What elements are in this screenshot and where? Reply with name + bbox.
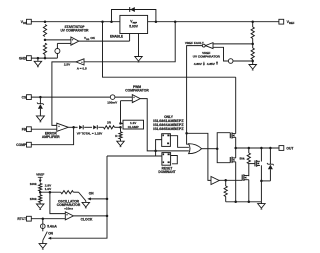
offset source 100mV	[110, 95, 115, 100]
label PWM COMPARATOR	[125, 85, 149, 93]
diode D1 bypass	[130, 7, 135, 12]
wire 2.5V to error amp	[52, 62, 76, 126]
svg-text:100k: 100k	[30, 182, 37, 186]
node chain bottom	[251, 60, 254, 63]
svg-text:COMP: COMP	[16, 143, 27, 147]
wire CS	[31, 96, 110, 98]
wire tap to comparator	[50, 192, 65, 213]
svg-text:UV COMPARATOR: UV COMPARATOR	[193, 55, 221, 59]
svg-text:A = 0.5: A = 0.5	[77, 67, 87, 71]
inverter fault	[211, 177, 219, 185]
wire VREF FAULT run	[187, 46, 203, 134]
node clamp junction	[119, 122, 122, 125]
ground 150k	[36, 202, 44, 209]
svg-text:DOMINANT: DOMINANT	[158, 170, 175, 174]
label ON discharge	[48, 232, 53, 236]
svg-text:DD: DD	[23, 21, 27, 25]
wire OR output	[202, 148, 218, 150]
wire circle to GND	[56, 54, 58, 59]
svg-text:CS: CS	[22, 95, 27, 99]
resistor chain upper	[251, 22, 254, 44]
label R	[115, 134, 118, 138]
latch upper (ISL6841/44/45)	[162, 134, 171, 147]
label ONLY ISL list	[153, 115, 184, 131]
wire branch to lower latch	[155, 151, 157, 156]
node R2-GND junction	[44, 57, 47, 60]
wire clamp stub	[121, 122, 124, 124]
node CLOCK out	[106, 215, 109, 218]
wire resistor to switch	[73, 191, 78, 193]
node clock threshold ctl	[106, 198, 109, 201]
svg-text:100mV: 100mV	[107, 100, 118, 104]
wire UV minus via switch	[213, 47, 228, 61]
wire lower latch Q hook	[171, 156, 178, 164]
ground CS zener	[36, 116, 44, 122]
node totem output	[234, 147, 237, 150]
wire inverter out	[219, 179, 243, 181]
wire to PWM plus	[115, 96, 132, 98]
wire error amp out	[68, 126, 77, 128]
resistor 2R	[104, 126, 115, 129]
svg-text:150k: 150k	[30, 197, 37, 201]
amplifier A=0.5	[76, 59, 84, 65]
node RTCT branch	[42, 217, 45, 220]
svg-text:DD: DD	[86, 39, 90, 41]
node COMP junction	[72, 126, 75, 129]
clamp box 1.1V	[123, 120, 144, 129]
wire VREF to divider amp	[84, 22, 175, 62]
svg-text:RTCT: RTCT	[17, 217, 26, 221]
label VREF FAULT	[185, 41, 204, 45]
resistor divider upper	[43, 25, 46, 37]
node VDD-divider junction	[44, 20, 47, 23]
wire zener to source	[260, 180, 270, 183]
pin COMP	[16, 142, 31, 147]
node diode left	[110, 20, 113, 23]
wire Q2 source down	[247, 180, 249, 202]
wire CLOCK	[73, 215, 107, 217]
node CS zener junction	[39, 96, 42, 99]
wire tap to comparator	[45, 39, 71, 41]
resistor 50k	[247, 148, 250, 164]
comparator oscillator	[65, 212, 73, 220]
pin VDD	[21, 19, 32, 25]
label thresholds	[45, 184, 52, 191]
pin OUT	[279, 146, 293, 151]
wire lower drain	[235, 148, 237, 158]
node GND-symbol junction	[37, 57, 40, 60]
pin VREF	[279, 19, 295, 25]
ground VREF chain	[249, 62, 257, 70]
node diode right	[155, 20, 158, 23]
label 5.4mA	[47, 224, 57, 228]
resistor inverter pulldown	[224, 180, 227, 202]
wire fault to OR gate	[187, 133, 189, 144]
wire upper source to OUT node	[235, 137, 237, 148]
resistor 150k	[39, 192, 42, 202]
ground VREF box	[135, 34, 143, 63]
svg-text:GND: GND	[19, 56, 27, 60]
wire Q2 drain up	[247, 175, 249, 178]
label VF TOTAL	[77, 132, 103, 136]
resistor chain lower	[251, 44, 254, 62]
node Q1 drain	[260, 147, 263, 150]
label ERROR AMPLIFIER	[42, 131, 60, 139]
svg-text:-: -	[67, 216, 68, 220]
comparator U1 START/STOP	[71, 37, 79, 45]
label ON threshold	[89, 191, 94, 195]
comparator VREF UV	[202, 43, 213, 49]
node VREF 2.5V branch	[174, 20, 177, 23]
svg-text:UV COMPARATOR: UV COMPARATOR	[61, 29, 90, 33]
svg-text:-: -	[134, 99, 135, 103]
svg-text:-: -	[72, 41, 73, 45]
or gate	[189, 144, 202, 154]
pin RTCT	[17, 216, 31, 221]
label ENABLE	[110, 35, 123, 39]
latch lower reset dominant	[162, 153, 171, 166]
comparator PWM	[132, 95, 140, 103]
wire to 2R	[98, 126, 103, 128]
svg-text:CLOCK: CLOCK	[81, 218, 93, 222]
wire clock to latch	[107, 155, 162, 157]
node rail totem	[234, 201, 237, 204]
label 150k	[30, 197, 37, 201]
wire source to switch	[42, 229, 44, 232]
node VREF FAULT branch	[185, 132, 188, 135]
pin FB	[22, 127, 32, 132]
wire upper latch Q to OR	[170, 136, 189, 148]
switch discharge blade	[43, 232, 48, 241]
wire upper drain VDD	[235, 77, 237, 133]
wire circle to chain	[233, 60, 253, 62]
wire branch to upper latch	[156, 140, 162, 151]
zener OUT clamp	[267, 147, 274, 181]
label CLOCK	[81, 218, 93, 222]
wire COMP	[31, 127, 73, 144]
svg-text:ON: ON	[89, 191, 94, 195]
label 50k	[239, 157, 244, 161]
node driver input	[216, 147, 219, 150]
diode D3	[93, 125, 97, 129]
wire between diodes	[84, 126, 92, 128]
pin CS	[22, 95, 32, 100]
ground threshold switch	[82, 201, 90, 208]
mosfet upper driver	[230, 132, 235, 138]
resistor divider lower	[43, 43, 46, 54]
wire lower source to rail	[235, 162, 237, 202]
wire gate bus	[217, 133, 230, 163]
wire VDD to output stage	[103, 22, 236, 77]
label 100k	[30, 182, 37, 186]
label 100mV	[107, 100, 118, 104]
svg-text:+10ns: +10ns	[64, 206, 73, 210]
node 2R junction	[119, 126, 122, 129]
resistor threshold switch	[61, 191, 74, 194]
label OSCILLATOR COMPARATOR	[57, 200, 81, 211]
wire diode bypass	[112, 10, 156, 22]
ground main	[34, 58, 42, 67]
wire 50k node	[248, 164, 250, 176]
svg-text:COMPARATOR: COMPARATOR	[125, 89, 149, 93]
svg-text:VREF FAULT: VREF FAULT	[185, 41, 204, 45]
node tap branch	[49, 191, 52, 194]
wire comparator minus input	[57, 43, 71, 48]
label VREF arrow	[36, 172, 44, 182]
error amplifier	[57, 123, 69, 132]
wire OUT line	[236, 147, 280, 149]
hysteresis switch circle	[55, 49, 60, 54]
svg-text:5.00V: 5.00V	[129, 25, 138, 29]
resistor 100k	[39, 183, 42, 191]
wire Q1 drain up	[260, 148, 262, 162]
svg-text:OUT: OUT	[286, 146, 293, 150]
node rail Q2	[248, 201, 251, 204]
current source 5.4mA	[41, 219, 46, 229]
pin GND	[19, 56, 31, 61]
resistor R	[119, 132, 122, 139]
wire PWM output	[140, 99, 189, 151]
svg-text:4.80V: 4.80V	[194, 62, 203, 66]
svg-text:50k: 50k	[239, 157, 244, 161]
wire RTCT	[31, 218, 65, 220]
label VREF UV COMPARATOR	[193, 51, 221, 59]
node VREF chain top	[251, 20, 254, 23]
mosfet discharge Q2	[242, 174, 247, 181]
svg-text:AMPLIFIER: AMPLIFIER	[42, 135, 60, 139]
svg-text:2.5V: 2.5V	[64, 63, 71, 67]
wire node down	[120, 127, 122, 132]
ground output stage	[258, 202, 266, 209]
svg-text:5.4mA: 5.4mA	[47, 224, 57, 228]
wire fault to inverter	[187, 133, 212, 180]
svg-text:4.85V: 4.85V	[207, 62, 216, 66]
svg-text:OK: OK	[90, 36, 95, 40]
ground R	[117, 139, 125, 147]
svg-text:1.0V: 1.0V	[45, 187, 52, 191]
wire GND net	[31, 57, 57, 59]
node inverter out	[224, 179, 227, 182]
svg-text:CLAMP: CLAMP	[128, 125, 139, 129]
wire 2R to node	[115, 126, 121, 128]
wire tap1 to comparator	[213, 43, 253, 45]
label 2R	[107, 121, 112, 125]
wire VREF out rail	[148, 21, 279, 23]
mosfet lower driver	[230, 157, 235, 164]
label A = 0.5	[77, 67, 87, 71]
regulator VREF 5.00V box	[120, 15, 148, 33]
diode D2	[79, 125, 83, 129]
svg-text:ENABLE: ENABLE	[110, 35, 123, 39]
node chain tap1	[251, 43, 254, 46]
label VDD OK	[84, 36, 96, 41]
svg-text:ON: ON	[48, 232, 53, 236]
node 50k junction	[248, 147, 251, 150]
node divider tap	[44, 39, 47, 42]
switch threshold blade	[78, 192, 85, 201]
wire FB	[31, 128, 57, 130]
UV hysteresis circle	[228, 59, 233, 64]
wire switch control	[87, 197, 107, 200]
wire output ground rail	[226, 201, 262, 203]
wire tap right	[40, 191, 61, 193]
label 2.5V	[64, 63, 71, 67]
wire VDD rail	[31, 21, 120, 23]
wire Q1 gate	[249, 163, 255, 165]
wire PWM minus	[121, 101, 133, 123]
wire VDD OK / ENABLE	[79, 34, 130, 42]
svg-text:ISL6845AMBEPZ: ISL6845AMBEPZ	[153, 127, 184, 131]
zener CS clamp	[37, 97, 44, 116]
svg-text:FB: FB	[22, 127, 27, 131]
mosfet pull-down Q1	[255, 160, 260, 167]
label 4.80V 4.85V	[194, 61, 218, 66]
wire Q1 source down	[260, 165, 262, 202]
node PWM latch branch	[154, 150, 157, 153]
ground discharge	[39, 240, 47, 249]
node VDD down branch	[101, 20, 104, 23]
wire clock bus	[48, 156, 107, 240]
svg-text:VREF: VREF	[36, 172, 44, 176]
svg-text:REF: REF	[289, 21, 295, 25]
svg-text:-: -	[59, 128, 60, 132]
label RESET DOMINANT	[158, 167, 175, 174]
node osc tap	[39, 191, 42, 194]
svg-text:VF TOTAL = 1.15V: VF TOTAL = 1.15V	[77, 132, 103, 136]
wire R2 bottom	[44, 55, 46, 59]
label START/STOP UV COMPARATOR	[61, 25, 90, 33]
